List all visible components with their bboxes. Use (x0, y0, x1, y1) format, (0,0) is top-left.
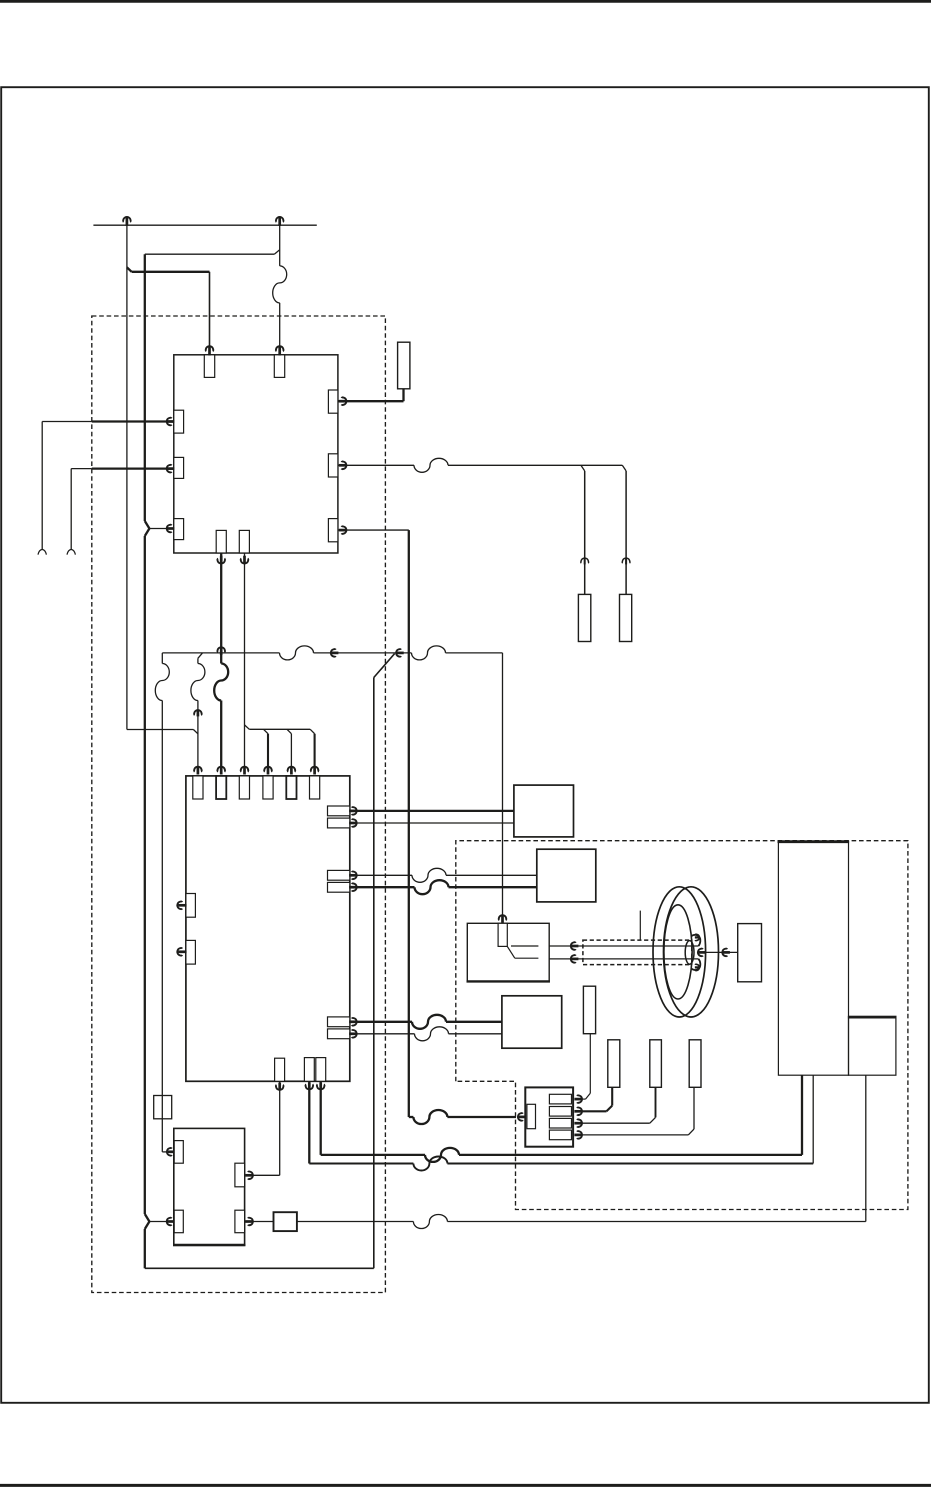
wire CN1 p1 (582, 1034, 590, 1099)
arrow head center 2 (722, 948, 730, 957)
arrow IC3 L1 (167, 1147, 175, 1156)
block loading motor top heavy (848, 1016, 897, 1019)
CN1 pin bar 4 (549, 1130, 571, 1140)
dashed box servo board (92, 316, 386, 1293)
wire R2 branch 1 (581, 465, 585, 594)
IC2 pin L1 (186, 894, 196, 918)
drum relay contact lower (515, 957, 539, 959)
wire R2a seg1 (350, 874, 412, 876)
arrow CN1 p4 (574, 1131, 582, 1140)
cap input L2 (67, 549, 75, 554)
drum relay contact diagonal (507, 946, 515, 958)
arrow mid branch1 (580, 558, 589, 564)
wire B2 horizontal seg1 (309, 1163, 413, 1165)
IC2 pin T4 (263, 776, 273, 799)
wire B3 rise (801, 1075, 803, 1155)
sensor S1 (578, 594, 590, 641)
block drum relay (467, 923, 549, 982)
IC2 pin T6 (310, 776, 320, 799)
coil L4 (689, 1040, 701, 1088)
wire R2 segment 2 (448, 464, 622, 466)
branch to T6 (310, 729, 314, 767)
break R2b (415, 880, 449, 894)
CN1 left pin (527, 1104, 536, 1128)
block servo amp (514, 785, 574, 837)
drum ring outer front (664, 887, 719, 1017)
wire branch to L3 (149, 528, 173, 530)
wire rail drop A (126, 219, 128, 730)
arrow IC2 T4 (264, 767, 273, 775)
wire R2b seg1 (350, 886, 415, 888)
wire R3a seg2 (446, 1021, 502, 1023)
wire R1b to servo amp (350, 822, 514, 824)
CN1 pin bar 1 (549, 1094, 571, 1104)
break bus line 1 (280, 646, 314, 660)
arrow IC2 R3b (349, 1029, 357, 1038)
dashed rotary transformer zone (583, 940, 692, 965)
arrow IC2 T6 (310, 767, 319, 775)
IC2 pin T3 (239, 776, 249, 799)
leader line (639, 911, 641, 941)
break B2 wire (413, 1157, 447, 1171)
coil L2 (608, 1040, 620, 1088)
wire T1 lower (197, 701, 199, 768)
wire B2 vertical (244, 553, 246, 768)
IC2 pin R3a (328, 1017, 350, 1027)
drum relay pin (498, 923, 507, 946)
arrow IC1 B1 out (217, 556, 226, 564)
wire input L1 inner (92, 420, 174, 422)
wire R1a to servo amp (350, 810, 514, 812)
arrow IC1 B2 out (240, 556, 249, 564)
break left drop (155, 664, 169, 701)
arrow IC1 L1 (167, 417, 175, 426)
wire R2 branch 2 (622, 465, 626, 594)
wire return vertical (373, 678, 375, 1269)
IC1 pin R1 (328, 390, 338, 413)
IC1 pin L3 (174, 519, 184, 540)
arrow IC2 B1 out (275, 1083, 284, 1090)
wire T1 diagonal (198, 653, 203, 658)
CN1 pin bar 3 (549, 1118, 571, 1128)
arrow bus left 1 (331, 649, 339, 658)
winding hook lower (691, 959, 700, 970)
wire head center (699, 951, 738, 953)
wire R3 vertical thick (408, 530, 410, 1117)
IC2 box (186, 776, 350, 1081)
wire branch to IC3 L2 (149, 1221, 173, 1223)
arrow IC1 R1 (339, 397, 347, 406)
IC3 pin L1 (174, 1141, 183, 1164)
arrow CN1 p3 (574, 1119, 582, 1128)
coil L1 (583, 986, 595, 1033)
wire B2 down (308, 1081, 310, 1163)
arrow into IC1 T1 (205, 346, 214, 355)
wire through fuse (161, 1096, 163, 1150)
break B1 (214, 664, 228, 701)
IC3 box (174, 1128, 245, 1245)
IC2 pin B2 (304, 1058, 314, 1082)
break R3a (412, 1015, 446, 1029)
wire return diagonal (374, 654, 395, 678)
IC2 pin B3 (316, 1058, 326, 1082)
wire R2 line rise (865, 1075, 867, 1221)
arrow IC2 T1 (194, 767, 203, 775)
wire rail A merge diagonal (193, 730, 198, 734)
arrow mid T1 (194, 710, 203, 716)
wire B2 horizontal seg2 (447, 1163, 813, 1165)
wire rail drop B upper (279, 219, 281, 266)
sensor S2 (620, 594, 632, 641)
arrow IC2 R2b (349, 883, 357, 892)
arrow IC2 B2 out (305, 1083, 314, 1090)
wire CN1 p4 (582, 1087, 694, 1135)
IC1 box (174, 355, 338, 553)
wire R2b seg2 (449, 886, 537, 888)
branch to T5 (287, 729, 291, 767)
break R3 feed (413, 1110, 447, 1124)
wire R2 segment 1 (338, 464, 414, 466)
arrow IC2 T5 (287, 767, 296, 775)
arrow IC2 R1b (349, 819, 357, 828)
break R2 (414, 458, 448, 472)
arrow mid branch2 (622, 558, 631, 564)
wire B2 rise (812, 1075, 814, 1163)
arrow IC2 R3a (349, 1017, 357, 1026)
arrow CN1 p1 (574, 1095, 582, 1104)
arrow head lower (571, 955, 579, 964)
break R2a (412, 868, 446, 882)
IC2 pin B1 (275, 1058, 285, 1081)
IC2 pin R2a (328, 870, 350, 880)
bus wire vertical thick (144, 254, 146, 521)
arrow junction B1 bus (217, 647, 226, 655)
IC1 pin R3 (328, 519, 338, 542)
wire branch diagonal B (274, 250, 279, 254)
IC3 box bottom heavy (173, 1244, 245, 1247)
bus wire vertical thick mid (144, 536, 146, 1214)
wire to IC3 L1 (162, 1149, 166, 1152)
cap input L1 (38, 549, 46, 554)
wire B to IC1 pin T2 (279, 303, 281, 348)
arrow into drum driver (498, 915, 507, 923)
CN1 pin bar 2 (549, 1107, 571, 1117)
wire R3b seg2 (449, 1033, 502, 1035)
arrow rail B (275, 217, 284, 226)
wire R3 horizontal (338, 529, 409, 531)
wire B3 down (320, 1081, 322, 1155)
branch diagonal from rail drop A (127, 267, 132, 272)
wire B1 to IC2 T2 (220, 701, 222, 768)
wire drop to drum driver (502, 653, 504, 923)
arrow IC3 R1 (245, 1171, 253, 1180)
arrow IC1 R3 (339, 526, 347, 535)
wire R2 line seg1 (297, 1221, 414, 1223)
junction chevron IC3-L2 (145, 1214, 150, 1229)
wire down to IC1 pin T1 (209, 272, 211, 348)
IC3 pin L2 (174, 1210, 183, 1233)
IC1 pin B1 (216, 530, 226, 553)
block capstan drive (502, 996, 562, 1048)
arrow IC3 L2 (167, 1217, 175, 1226)
wire R3 to CN1 (409, 1116, 516, 1118)
arrow IC1 L3 (167, 524, 175, 533)
power rail (93, 224, 316, 226)
wire rail A corner (127, 729, 193, 731)
coil L3 (650, 1040, 662, 1088)
wire R2 line seg2 (447, 1221, 865, 1223)
wire B1 to IC3 R1 (253, 1081, 280, 1175)
arrow stub IC2 L2 (177, 947, 186, 956)
break T1 (191, 664, 205, 701)
wire input L2 outer (71, 469, 92, 550)
wire left drop (161, 701, 163, 1096)
IC2 pin T1 (193, 776, 203, 799)
wire R3b seg1 (350, 1033, 415, 1035)
wire head upper (549, 945, 698, 947)
break wire B (273, 266, 287, 303)
wire B3 horizontal seg1 (321, 1154, 425, 1156)
wire B3 horizontal seg2 (459, 1154, 802, 1156)
wire CN1 p2 (582, 1087, 612, 1111)
wire input L1 outer (42, 422, 92, 550)
IC2 pin T5 (286, 776, 296, 799)
dashed box drum/mechanism (456, 841, 908, 1210)
page top rule (0, 0, 931, 3)
vcc thick horizontal (132, 271, 210, 273)
IC2 pin R1b (328, 818, 350, 828)
arrow head center 1 (698, 948, 706, 957)
branch to T4 (264, 729, 269, 767)
wire R2a seg2 (446, 874, 537, 876)
IC1 pin R2 (328, 454, 338, 477)
wire IC3 R2 to resistor (245, 1221, 274, 1223)
wire B2 branch horizontal (249, 728, 310, 730)
wire T1 upper (197, 658, 199, 663)
wire branch horizontal to VCC bus (145, 253, 274, 255)
IC1 pin L1 (174, 410, 184, 433)
arrow IC2 B3 out (316, 1083, 325, 1090)
wire input L2 inner (92, 468, 174, 470)
IC3 pin R2 (235, 1210, 245, 1233)
IC2 pin R3b (328, 1029, 350, 1039)
block drum relay bottom heavy (467, 980, 550, 982)
arrow IC3 R2 (245, 1217, 253, 1226)
IC1 pin B2 (239, 530, 249, 553)
drum ring outer back (653, 887, 706, 1017)
wire R3a seg1 (350, 1021, 412, 1023)
block head pre-amp (738, 924, 762, 982)
IC1 pin L2 (174, 457, 184, 478)
IC2 pin L2 (186, 940, 196, 964)
wire head lower (549, 958, 698, 960)
arrow stub IC2 L1 (177, 901, 186, 910)
IC1 pin T2 (274, 355, 284, 378)
bus line left corner (161, 653, 163, 664)
drum ring inner (664, 905, 692, 999)
arrow IC2 T3 (240, 767, 249, 775)
break R2 line (413, 1215, 447, 1229)
arrow IC2 R1a (349, 807, 357, 816)
break B3 wire (425, 1148, 459, 1162)
wire B1 vertical thick (220, 553, 222, 664)
arrow rail A (123, 217, 132, 226)
resistor R1 (274, 1212, 297, 1231)
arrow head upper (571, 942, 579, 951)
bus line segment 2 (314, 652, 412, 654)
resonator X1 (398, 342, 410, 389)
arrow IC1 R2 (339, 461, 347, 470)
block mechanism top heavy (778, 840, 850, 843)
fuse F1 (154, 1096, 172, 1119)
bus line segment 3 (446, 652, 503, 654)
arrow bus left 2 (396, 649, 404, 658)
connector CN1 box (525, 1087, 573, 1146)
winding hook upper (691, 935, 700, 946)
arrow IC2 T2 (217, 767, 226, 775)
break R3b (415, 1027, 449, 1041)
block loading motor (849, 1017, 896, 1076)
arrow into IC1 T2 (275, 346, 284, 355)
arrow CN1 left (518, 1113, 526, 1122)
wire R1 to resonator (338, 389, 404, 401)
IC3 pin R1 (235, 1163, 245, 1187)
wire B2 branch diagonal (245, 725, 250, 729)
drum relay contact upper (511, 945, 538, 947)
junction chevron IC1-L3 (145, 521, 150, 536)
page bottom rule (0, 1484, 931, 1487)
bus wire vertical thick low (144, 1229, 146, 1268)
IC2 pin R1a (328, 806, 350, 816)
IC2 pin T2 (216, 776, 226, 799)
IC1 pin T1 (204, 355, 214, 378)
block motor drive (537, 849, 596, 902)
arrow winding lower (695, 964, 699, 971)
arrow winding upper (695, 934, 699, 941)
drum hub (685, 941, 694, 965)
IC2 pin R2b (328, 882, 350, 892)
arrow CN1 p2 (574, 1107, 582, 1116)
arrow IC2 R2a (349, 871, 357, 880)
block mechanism (778, 841, 848, 1075)
break bus line 2 (412, 646, 446, 660)
bus line segment 1 (162, 652, 279, 654)
arrow IC1 L2 (167, 464, 175, 473)
bus wire bottom horizontal (145, 1267, 374, 1269)
wire CN1 p3 (582, 1087, 656, 1123)
